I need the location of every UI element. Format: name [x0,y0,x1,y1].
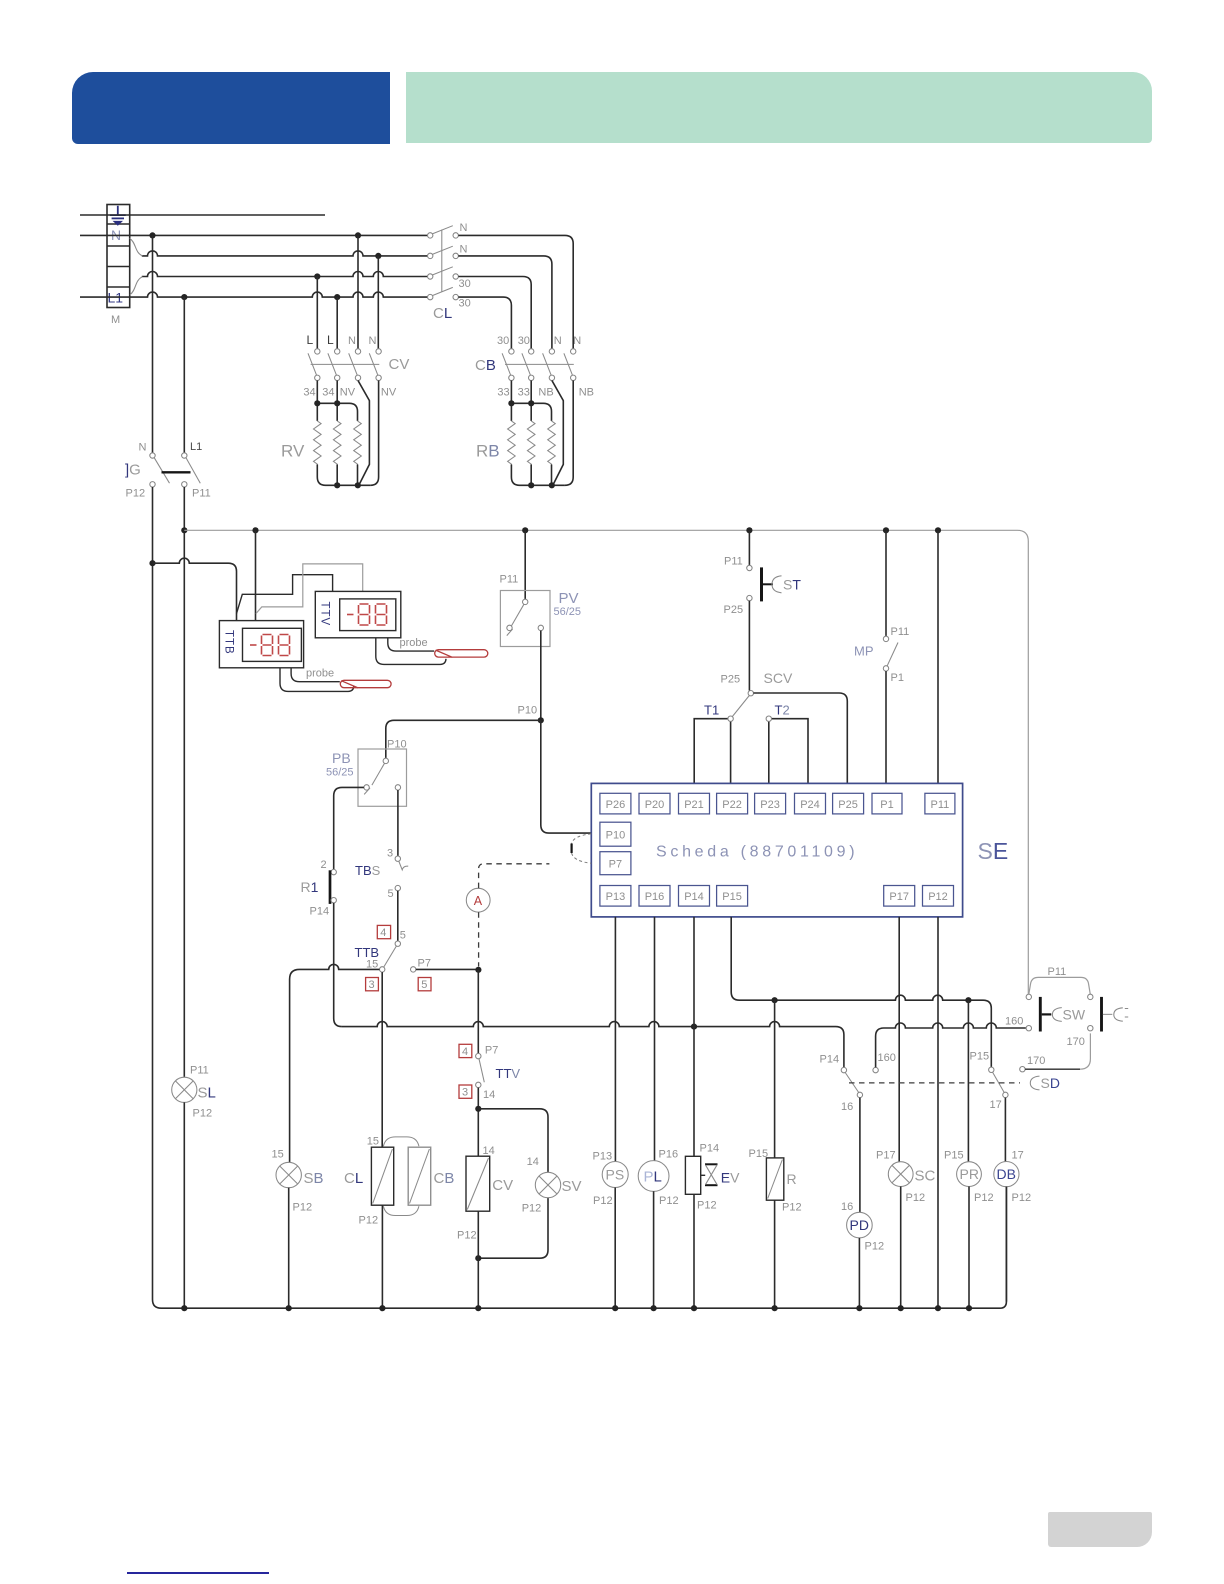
svg-text:4: 4 [462,1046,468,1058]
svg-text:P11: P11 [724,556,743,568]
svg-text:P20: P20 [645,799,665,811]
svg-text:CV: CV [389,356,410,373]
terminal block M [107,205,130,327]
svg-text:CB: CB [475,357,496,374]
wire SL to rail [183,1102,185,1308]
node 14 [475,1106,481,1112]
pushbutton PB [326,739,407,807]
svg-text:P11: P11 [192,488,211,500]
svg-text:SV: SV [562,1178,582,1195]
svg-text:16: 16 [841,1101,853,1113]
svg-text:P1: P1 [880,799,893,811]
wire P12 branch to TTB [153,558,237,620]
svg-text:RB: RB [476,442,500,461]
wire P13 to PS [614,917,616,1162]
wire row3 to CV pole4 [377,256,379,349]
wire TTV to CV coil [477,1088,479,1157]
CL output wires to CB [458,235,573,348]
wire P12 pin to rail [937,917,939,1308]
wire PL to rail [653,1191,655,1308]
thermometer display TTB [219,621,303,668]
svg-text:RV: RV [281,442,305,461]
svg-text:N: N [139,442,147,454]
resistor R1 [301,859,337,918]
wire SB to rail [288,1188,290,1309]
svg-text:30: 30 [497,335,509,347]
heater R [749,1148,802,1214]
svg-text:4: 4 [380,927,386,939]
svg-text:TTB: TTB [223,630,235,655]
svg-text:P12: P12 [697,1200,717,1212]
wire P12 main drop [152,487,154,1300]
wire CL coil to rail [381,1205,383,1308]
solenoid valve EV [685,1143,740,1212]
svg-text:P15: P15 [944,1150,964,1162]
wire TTB 15 down to CL coil [381,972,383,1147]
svg-text:P25: P25 [721,674,741,686]
svg-text:P14: P14 [700,1143,720,1155]
svg-text:SD: SD [1041,1075,1060,1091]
node P14 pin junction [691,1024,697,1030]
wire DB feed [1004,1098,1006,1162]
wire row4 to CV pole1 [316,277,318,349]
svg-text:N: N [460,244,468,256]
svg-text:P12: P12 [193,1108,213,1120]
svg-text:N: N [348,335,356,347]
wire TTB 15 to SB lamp [290,964,380,1162]
svg-text:15: 15 [272,1149,284,1161]
bus junction dots [252,527,941,533]
svg-text:34: 34 [303,387,315,399]
bottom rail P12 [153,1187,1007,1309]
wire row 3 [142,251,429,256]
svg-text:5: 5 [400,930,406,942]
wire PS to rail [614,1188,616,1309]
svg-text:17: 17 [990,1099,1002,1111]
resistor bank RV [281,381,379,489]
svg-text:PV: PV [559,590,579,607]
svg-text:T1: T1 [704,703,719,718]
thermostat contact TTB [355,925,406,991]
svg-text:P25: P25 [724,604,744,616]
wire PD to rail [858,1238,860,1308]
wire P11 drop to SL [183,487,185,1077]
selector TBS [355,848,408,901]
svg-text:30: 30 [459,278,471,290]
svg-text:P12: P12 [457,1230,477,1242]
svg-text:P7: P7 [418,958,431,970]
wire EV to rail [693,1194,695,1308]
wire P15 upper run [731,917,991,1067]
svg-text:DB: DB [997,1166,1016,1182]
svg-text:P11: P11 [931,799,950,811]
svg-text:170: 170 [1027,1055,1045,1067]
wire P10 to board [541,720,592,833]
svg-text:14: 14 [483,1089,495,1101]
svg-text:SE: SE [978,838,1009,864]
svg-text:SW: SW [1063,1007,1086,1023]
lamp PD [841,1201,884,1253]
node R tap [772,997,778,1003]
svg-text:P10: P10 [518,705,538,717]
svg-text:P12: P12 [782,1202,802,1214]
wire L1 feed to IG [183,297,185,453]
svg-text:160: 160 [1005,1016,1023,1028]
coil CV [457,1145,513,1242]
svg-text:NB: NB [579,387,594,399]
svg-text:16: 16 [841,1201,853,1213]
svg-text:P17: P17 [889,891,909,903]
svg-text:P12: P12 [293,1202,313,1214]
node P7 junction [475,967,481,973]
svg-text:P11: P11 [190,1065,209,1077]
node P11 bus tap [181,527,187,533]
svg-text:N: N [573,335,581,347]
svg-text:L: L [327,333,334,347]
svg-text:TTV: TTV [319,602,331,627]
wire N row [80,234,429,236]
footer gray box [1048,1512,1152,1547]
terminal T2 [766,703,808,784]
contactor CL [428,222,471,322]
lamp SV [522,1156,582,1215]
svg-text:P12: P12 [865,1241,885,1253]
svg-text:2: 2 [321,859,327,871]
svg-text:ST: ST [783,577,801,593]
svg-text:EV: EV [721,1170,740,1186]
wire R to rail [774,1200,776,1308]
wire P11 tap to TTB [255,530,257,620]
svg-text:3: 3 [387,848,393,860]
earth symbol [110,206,126,226]
svg-text:P1: P1 [891,672,904,684]
lamp PS [593,1151,629,1208]
svg-text:PD: PD [850,1217,869,1233]
wire P17 to SC [898,917,900,1162]
svg-text:SB: SB [304,1170,324,1187]
svg-text:PB: PB [332,750,351,766]
svg-text:P10: P10 [606,830,626,842]
svg-text:P15: P15 [749,1148,769,1160]
svg-text:P12: P12 [126,488,146,500]
svg-text:14: 14 [483,1145,495,1157]
svg-text:CB: CB [434,1170,455,1187]
board connector bracket [572,834,592,864]
wire staircase TTB to TTV (gray) [256,564,363,614]
contact 170 [1020,1033,1091,1072]
svg-text:30: 30 [518,335,530,347]
svg-text:TTV: TTV [496,1066,521,1081]
wire SV branch [478,1109,548,1173]
svg-text:15: 15 [367,1136,379,1148]
svg-text:P15: P15 [722,891,742,903]
svg-text:NV: NV [340,387,356,399]
lamp SC [876,1150,936,1205]
changeover switch P14/16/160 [820,1052,896,1113]
svg-text:P7: P7 [609,859,622,871]
svg-text:TBS: TBS [355,863,381,878]
wire P7 to TTV contact [477,970,479,1054]
svg-text:CL: CL [433,305,452,322]
svg-text:P12: P12 [1012,1192,1032,1204]
lamp SL [172,1065,216,1120]
wire row 4 [142,272,429,277]
junction dots power rows [149,232,381,300]
lamp DB [994,1150,1031,1205]
wire N feed to IG [152,235,154,452]
svg-text:M: M [111,314,120,326]
contactor CB [475,335,594,399]
header blue block [72,72,390,144]
bus P11 [184,530,1028,996]
thermostat ST [724,530,802,616]
wire TBS to TTB contact [397,891,399,941]
wire ST to SCV [748,601,750,691]
svg-text:P24: P24 [800,799,820,811]
TTV probe wires [388,638,434,651]
svg-text:3: 3 [369,979,375,991]
svg-text:P16: P16 [659,1149,679,1161]
svg-text:5: 5 [421,979,427,991]
wire staircase TTB to TTV (black) [237,575,333,614]
svg-text:]G: ]G [125,462,141,479]
lamp PR [944,1150,994,1205]
wire P11 to board pin [937,530,939,783]
switch MP [854,530,909,783]
svg-text:34: 34 [322,387,334,399]
node PR tap [965,997,971,1003]
wire R1 down to P14 line [334,903,342,1027]
svg-text:NB: NB [538,387,553,399]
svg-text:33: 33 [518,387,530,399]
svg-text:56/25: 56/25 [326,767,354,779]
wire PD feed [859,1098,861,1213]
svg-text:P15: P15 [970,1051,990,1063]
svg-text:5: 5 [388,888,394,900]
svg-text:P12: P12 [906,1192,926,1204]
svg-text:P13: P13 [593,1151,613,1163]
contactor CV [303,333,409,399]
svg-text:3: 3 [462,1087,468,1099]
TTB probe wires [291,668,340,682]
wire N to CV pole3 [357,235,359,348]
coil CL [344,1136,394,1227]
svg-text:NV: NV [381,387,397,399]
contact P7 [411,958,476,992]
svg-text:probe: probe [400,637,428,649]
node P12 branch [149,560,155,566]
wire PV to node P10 [540,631,542,721]
svg-text:N: N [460,222,468,234]
pressure switch SD [849,1075,1060,1091]
svg-text:P14: P14 [820,1054,840,1066]
probe TTV [400,637,488,657]
main switch IG [125,441,211,500]
svg-text:170: 170 [1067,1036,1085,1048]
svg-text:PL: PL [644,1169,662,1186]
svg-text:CV: CV [492,1177,513,1194]
svg-text:P11: P11 [500,574,519,586]
interlock arcs CL CB [383,1137,419,1146]
terminal T1 [694,703,733,784]
svg-text:P17: P17 [876,1150,896,1162]
lamp SB [272,1149,324,1214]
wire DB to rail [1005,1187,1007,1302]
svg-text:SL: SL [198,1085,216,1102]
node P10 [538,717,544,723]
svg-text:17: 17 [1012,1150,1024,1162]
resistor bank RB [476,381,573,489]
wire P11 tap to PV [524,530,526,599]
wire P10 to PB [386,720,541,758]
svg-text:MP: MP [854,644,874,659]
svg-text:P12: P12 [928,891,948,903]
svg-text:P7: P7 [485,1045,498,1057]
svg-text:L: L [307,333,314,347]
svg-text:33: 33 [497,387,509,399]
phase swap curve N to row3 [130,238,143,256]
svg-text:PS: PS [606,1167,625,1183]
svg-text:probe: probe [306,668,334,680]
footer blue rule [127,1572,269,1574]
svg-text:L1: L1 [190,441,202,453]
svg-text:P26: P26 [606,799,626,811]
phase swap curve L1 to row4 [130,277,143,295]
control board SE [591,783,1008,917]
wire CV to rail [477,1211,479,1308]
pressure switch PV [500,574,582,647]
coil CB [408,1147,454,1205]
svg-text:P11: P11 [1048,966,1067,978]
svg-text:N: N [554,335,562,347]
wire PB left to R1 [334,787,364,869]
door switch SW [1005,966,1128,1032]
wire L1 row [80,292,429,297]
svg-text:T2: T2 [775,703,790,718]
svg-text:P12: P12 [359,1215,379,1227]
svg-text:P16: P16 [645,891,665,903]
svg-text:P10: P10 [387,739,407,751]
wire P14 to EV [693,917,695,1156]
svg-text:SC: SC [915,1168,936,1185]
svg-text:P23: P23 [760,799,780,811]
svg-text:R1: R1 [301,879,319,895]
wire earth row [80,214,325,216]
thermostat contact TTV [459,1044,520,1101]
header teal block [406,72,1152,143]
svg-text:30: 30 [459,298,471,310]
wire PR to rail [968,1187,970,1309]
changeover switch P15/17/170 [970,1051,1009,1112]
svg-text:P22: P22 [722,799,742,811]
selector SCV [721,670,848,783]
svg-text:56/25: 56/25 [554,606,582,618]
wire P16 to PL [654,917,656,1161]
svg-text:P13: P13 [606,891,626,903]
svg-text:P25: P25 [838,799,858,811]
svg-text:P14: P14 [310,906,330,918]
svg-text:CL: CL [344,1170,363,1187]
svg-text:P12: P12 [593,1195,613,1207]
wire PB bottom to TBS [397,790,399,856]
svg-text:160: 160 [878,1052,896,1064]
svg-text:P14: P14 [684,891,704,903]
svg-text:P21: P21 [684,799,704,811]
svg-text:P11: P11 [891,626,910,638]
svg-text:PR: PR [960,1166,979,1182]
probe TTB [306,668,391,688]
svg-text:A: A [474,894,483,908]
wire PR feed [967,1000,969,1162]
wire 160 to SW [876,1023,1026,1067]
wire P14 long run [342,1022,844,1068]
svg-text:N: N [369,335,377,347]
svg-text:SCV: SCV [764,670,793,686]
wire SC to rail [900,1187,902,1309]
svg-text:Scheda (88701109): Scheda (88701109) [656,844,858,861]
wire L1 to CV pole2 [336,297,338,349]
svg-text:P12: P12 [522,1203,542,1215]
thermometer display TTV [315,591,401,637]
svg-text:14: 14 [527,1156,539,1168]
svg-text:P12: P12 [659,1195,679,1207]
rail junction dots [181,1305,972,1311]
svg-text:R: R [787,1171,797,1187]
svg-text:P12: P12 [974,1192,994,1204]
lamp PL [638,1149,678,1208]
wire R feed [774,1000,776,1158]
ammeter A [466,864,549,967]
